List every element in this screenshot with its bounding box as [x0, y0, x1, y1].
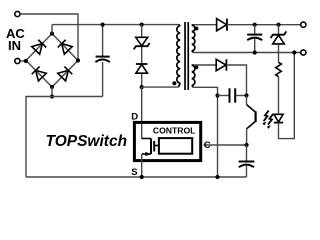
wire drain to TOPSwitch D pin — [141, 87, 143, 138]
node C pin — [245, 143, 249, 147]
svg-text:C: C — [204, 140, 211, 151]
transformer T1 primary winding — [177, 25, 180, 88]
optocoupler light arrows — [264, 111, 274, 125]
wire clamp vertical — [141, 25, 143, 88]
zener VR1 — [134, 37, 150, 49]
wire top terminal to bridge right node — [20, 14, 78, 61]
TOPSwitch U1 box — [134, 122, 200, 160]
capacitor C4 leads — [246, 145, 248, 177]
svg-text:D: D — [131, 111, 138, 122]
ground bus (bottom rail) — [26, 176, 246, 178]
wire bottom terminal to bridge left node — [20, 60, 26, 62]
wire bridge top to DC+ rail — [51, 25, 53, 34]
bridge diode top-right — [58, 40, 73, 54]
bridge diode top-left — [32, 40, 47, 54]
node clamp top — [140, 23, 144, 27]
capacitor C1 leads — [102, 25, 104, 97]
bridge diode bottom-right — [58, 67, 73, 81]
wire bias winding return — [194, 87, 218, 177]
LED D4 — [274, 114, 283, 122]
wire VR2 branch — [278, 25, 280, 115]
capacitor C4 — [239, 162, 255, 168]
wire bias top to D3 — [194, 64, 217, 66]
diode bridge edges (wires) — [26, 34, 78, 88]
transformer T1 secondary phasing dot — [194, 27, 198, 31]
AC input terminal top — [15, 11, 20, 16]
capacitor C2 leads — [254, 25, 256, 53]
phototransistor U2B — [247, 105, 256, 129]
diode D1 — [136, 64, 148, 73]
node bridge right — [76, 58, 80, 62]
MOSFET source arrow — [145, 152, 150, 156]
control block rectangle — [159, 138, 192, 154]
resistor R1 — [276, 62, 282, 76]
node bias return at ground — [215, 175, 219, 179]
capacitor C3 — [230, 88, 236, 102]
node C3 right / bias node — [244, 93, 248, 97]
transformer T1 secondary winding — [192, 25, 195, 53]
wire C pin line — [204, 144, 247, 146]
AC input terminal bottom — [15, 58, 20, 63]
node bridge bottom junction — [50, 94, 54, 98]
svg-text:IN: IN — [8, 38, 21, 53]
capacitor C2 — [247, 35, 262, 41]
wire clamp to primary bottom — [142, 86, 179, 88]
node S pin at ground — [140, 175, 144, 179]
DC- return wire — [26, 97, 103, 178]
wire phototransistor emitter to C node — [246, 129, 248, 145]
wire secondary top to D2 — [194, 24, 217, 26]
wire D2 to output + terminal — [227, 24, 301, 26]
svg-text:CONTROL: CONTROL — [153, 125, 196, 135]
wire D3 to bias node — [226, 65, 246, 96]
node bridge bottom — [50, 85, 54, 89]
node return rail right — [292, 50, 296, 54]
diode D3 — [216, 59, 226, 70]
svg-text:TOPSwitch: TOPSwitch — [46, 133, 128, 150]
transformer T1 core — [184, 22, 189, 90]
MOSFET inside TOPSwitch — [142, 139, 159, 155]
diode D2 — [217, 19, 227, 31]
zener VR2 — [271, 31, 287, 44]
DC+ rail — [52, 24, 179, 26]
node zener VR2 top — [276, 23, 280, 27]
wire LED to return rail — [279, 53, 295, 139]
node C2 top — [253, 23, 257, 27]
output terminal - — [301, 50, 306, 55]
svg-text:S: S — [131, 167, 137, 178]
node bias return / C3 left — [215, 93, 219, 97]
wire secondary bottom (output return) — [194, 52, 301, 54]
bridge diode bottom-left — [32, 67, 47, 81]
node clamp bottom / drain — [140, 85, 144, 89]
capacitor C3 leads — [218, 95, 230, 97]
node bridge left — [24, 59, 28, 63]
transformer T1 bias phasing dot — [194, 65, 198, 69]
transformer T1 bias winding — [192, 65, 195, 87]
capacitor C1 — [95, 57, 109, 63]
wire bridge bottom down — [51, 87, 53, 97]
output terminal + — [301, 22, 306, 27]
wire bias node to phototransistor collector — [246, 96, 248, 105]
node C1 top — [101, 23, 105, 27]
transformer T1 primary phasing dot — [172, 81, 176, 85]
node C2 bottom — [253, 50, 257, 54]
wire S pin to ground bus — [141, 154, 143, 177]
node bridge top — [50, 31, 54, 35]
